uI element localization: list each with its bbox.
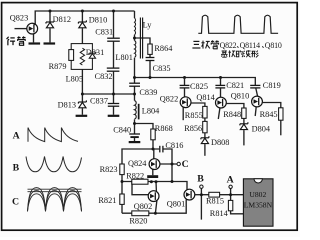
- wire Q814 bottom stub: [218, 108, 220, 119]
- zener D831: [89, 52, 96, 59]
- svg-text:C: C: [182, 159, 189, 170]
- wire C825 upper lead: [184, 78, 186, 86]
- capacitor C835: [146, 58, 155, 61]
- node dot Q802 emitter/bottom rail: [154, 212, 157, 215]
- svg-text:R821: R821: [98, 196, 116, 205]
- resistor R822 horizontal: [132, 179, 148, 184]
- svg-text:R823: R823: [100, 165, 118, 174]
- label 的 (hanzi de): [236, 50, 243, 56]
- node dot D810/top bus: [81, 10, 84, 13]
- wire Q822 emitter to R855: [191, 103, 205, 106]
- svg-text:L804: L804: [142, 106, 160, 115]
- resistor R821: [120, 194, 124, 204]
- wire bottom rail y213.2: [122, 200, 186, 214]
- svg-text:C821: C821: [226, 81, 244, 90]
- capacitor bar under Q824: [147, 175, 158, 178]
- svg-text:LM358N: LM358N: [244, 200, 273, 209]
- svg-text:C825: C825: [190, 82, 208, 91]
- wire L801 bottom to bus: [134, 58, 136, 78]
- wire Q802 collector: [155, 182, 157, 192]
- resistor R864: [148, 44, 152, 54]
- svg-text:C816: C816: [165, 141, 183, 150]
- label 极 (hanzi ji): [201, 41, 209, 49]
- wire Q801 right to R815 rail: [195, 194, 209, 196]
- wire junction to R864: [135, 38, 151, 44]
- wire Q824 emitter to C terminal: [160, 163, 177, 165]
- transistor Q822: [180, 97, 191, 108]
- node dot emitter/C816 column: [171, 163, 174, 166]
- 行管 label (hanzi guan): [17, 36, 25, 45]
- zener D812: [46, 20, 54, 28]
- zener D810: [78, 20, 86, 28]
- node dot C839/node row: [133, 93, 136, 96]
- svg-text:C837: C837: [90, 96, 108, 105]
- svg-text:R856: R856: [184, 124, 202, 133]
- wire Q802 base: [132, 182, 149, 195]
- resistor R879: [69, 50, 74, 61]
- zener D808: [201, 136, 209, 144]
- capacitor C831: [107, 38, 120, 41]
- node dot C840 junction: [133, 122, 136, 125]
- capacitor C837: [108, 104, 119, 107]
- svg-text:Q8114: Q8114: [240, 41, 261, 50]
- node dot B/R815 rail: [200, 193, 203, 196]
- wire C839 upper lead: [134, 78, 136, 84]
- resistor R823: [120, 164, 124, 175]
- resistor R814: [228, 200, 232, 210]
- zener D813: [78, 100, 86, 108]
- waveform B parabolas: [26, 157, 82, 172]
- svg-text:Q810: Q810: [231, 91, 249, 100]
- transistor Q810: [252, 96, 263, 107]
- wire C837 lower lead: [113, 106, 115, 114]
- svg-text:Q810: Q810: [265, 41, 282, 50]
- wire Ly bottom to junction: [134, 35, 136, 41]
- wire R868 to rail: [152, 140, 154, 149]
- wire Q822 bottom stub: [182, 108, 184, 121]
- svg-text:R855: R855: [185, 111, 203, 120]
- wire Q802 emitter: [155, 200, 157, 213]
- wire L805 loop bottom to D813: [81, 69, 83, 102]
- svg-text:R845: R845: [260, 110, 278, 119]
- svg-text:D812: D812: [53, 15, 71, 24]
- wire C840 to ground: [134, 137, 136, 141]
- resistor R856: [203, 121, 207, 132]
- capacitor C816: [160, 146, 163, 153]
- ground C837: [108, 115, 120, 117]
- svg-text:R864: R864: [154, 44, 173, 53]
- op-amp U802 IC body: [243, 179, 273, 226]
- transistor Q801: [184, 189, 195, 200]
- node dot L801/bus: [133, 76, 136, 79]
- svg-text:C835: C835: [153, 64, 171, 73]
- wire R856 to D808: [204, 133, 206, 138]
- wire D810 branch: [81, 11, 83, 22]
- transformer core bars: [139, 18, 141, 59]
- wire C839 to L804: [134, 86, 136, 100]
- U802 notch: [254, 179, 262, 183]
- wire D804 lower lead: [243, 130, 245, 145]
- node B terminal circle: [200, 185, 203, 188]
- node dot Ly/L801 junction: [133, 37, 136, 40]
- svg-text:D813: D813: [58, 101, 76, 110]
- wire D810 to damper loop: [81, 29, 83, 44]
- node dot loop/D813 row: [81, 93, 84, 96]
- label 三 (hanzi san): [192, 41, 200, 48]
- resistor R855: [203, 106, 207, 118]
- svg-text:B: B: [197, 174, 204, 185]
- wire C821 upper lead: [220, 78, 222, 86]
- node dot C832/C837 row: [112, 93, 115, 96]
- node dot C821/bus: [219, 76, 222, 79]
- wire R823 to R822 rail: [121, 175, 123, 194]
- node C terminal circle: [177, 162, 180, 165]
- capacitor C840 electrolytic: [129, 134, 140, 137]
- svg-text:C819: C819: [263, 81, 281, 90]
- wire B node down: [200, 188, 202, 219]
- node dot C825/bus: [183, 76, 186, 79]
- wire C825 to Q822: [184, 88, 186, 97]
- svg-text:R848: R848: [223, 110, 241, 119]
- wire D812 branch: [49, 11, 51, 22]
- svg-text:R820: R820: [129, 217, 147, 226]
- wire C840 junction to R868: [135, 124, 154, 130]
- wire R821 to bottom rail: [121, 204, 123, 213]
- inductor L801 coil: [135, 41, 136, 58]
- wire C831 to C832: [113, 42, 115, 68]
- node A terminal circle: [229, 185, 232, 188]
- wire L804 to C840 junction: [134, 119, 136, 133]
- svg-text:A: A: [227, 174, 234, 185]
- wire C821 to Q814: [220, 88, 222, 97]
- svg-text:Q822: Q822: [160, 94, 178, 103]
- svg-text:Q824: Q824: [128, 159, 147, 168]
- wire Q824 bottom to bar: [152, 169, 154, 175]
- svg-text:C839: C839: [139, 88, 157, 97]
- svg-text:R879: R879: [49, 62, 67, 71]
- svg-text:Q822: Q822: [220, 41, 237, 50]
- capacitor C832: [107, 68, 120, 71]
- svg-text:Q814: Q814: [196, 93, 215, 102]
- svg-text:Q801: Q801: [167, 199, 185, 208]
- transistor Q824: [149, 159, 160, 170]
- svg-text:D810: D810: [89, 16, 107, 25]
- wire C816 right to C node column: [163, 149, 172, 182]
- ground D813: [76, 115, 88, 117]
- comma separators: [237, 46, 264, 47]
- label 管 (hanzi guan2): [211, 40, 219, 49]
- wire rail y149 from R823 to C816: [122, 149, 159, 164]
- wire Q810 emitter to R845: [262, 103, 280, 108]
- node dot R868/rail: [152, 148, 155, 151]
- svg-text:C832: C832: [95, 72, 113, 81]
- svg-text:C: C: [12, 197, 19, 208]
- svg-text:D831: D831: [86, 48, 104, 57]
- svg-text:L805: L805: [66, 75, 84, 84]
- waveform C overlapping arcs: [28, 188, 82, 212]
- wire mid bus y77.5: [135, 78, 256, 86]
- wire R822 rail y181.5: [122, 182, 187, 190]
- wire Q823 emitter: [33, 34, 35, 43]
- node dot C835/bus: [149, 76, 152, 79]
- capacitor C821: [215, 85, 225, 88]
- transistor Q823: [27, 23, 38, 34]
- wire top bus corner into Ly: [134, 11, 136, 18]
- wire Q810 bottom stub: [255, 107, 256, 116]
- svg-text:L801: L801: [115, 53, 133, 62]
- wire C832 to node: [113, 72, 115, 94]
- wire C819 to Q810: [256, 88, 258, 96]
- node dot A/R815 rail: [229, 193, 232, 196]
- svg-text:C840: C840: [113, 125, 131, 134]
- wire C831 branch: [113, 11, 115, 38]
- wire Q823 base: [15, 28, 28, 30]
- transistor Q814: [216, 97, 227, 108]
- 行管 label (hanzi xing): [7, 37, 16, 46]
- wire C835 to bus: [149, 61, 151, 78]
- wire top bus: [35, 11, 134, 25]
- label 形 (hanzi xing2): [251, 51, 258, 58]
- ground Q823: [29, 42, 41, 44]
- inductor L805 zigzag: [80, 48, 84, 65]
- node dot R822 right: [150, 180, 153, 183]
- wire A node down to R814: [230, 188, 232, 200]
- node dot D812/top bus: [49, 10, 52, 13]
- svg-text:Ly: Ly: [143, 20, 153, 29]
- svg-text:C831: C831: [95, 28, 113, 37]
- wire D813 to ground: [81, 109, 83, 115]
- svg-text:B: B: [13, 163, 20, 174]
- wire Q823 collector stub inside: [32, 23, 35, 25]
- resistor R868: [151, 129, 155, 140]
- svg-text:R814: R814: [210, 209, 229, 218]
- ground C840: [129, 141, 141, 143]
- damper network loop rectangle: [71, 44, 92, 70]
- inductor Ly coil: [135, 18, 136, 35]
- wire Q814 emitter to R848: [226, 104, 244, 109]
- waveform A sawtooth: [28, 128, 78, 142]
- L804 core bar: [138, 104, 140, 120]
- resistor R845: [279, 108, 283, 120]
- wire R855 to R856: [204, 118, 206, 121]
- svg-text:R868: R868: [155, 124, 173, 133]
- capacitor C819: [250, 85, 260, 88]
- label 基 (hanzi ji2): [221, 50, 228, 57]
- capacitor C839: [129, 83, 140, 86]
- label 波 (hanzi bo): [244, 50, 251, 57]
- node dot Q802 collector/rail: [155, 180, 158, 183]
- svg-text:Q823: Q823: [10, 14, 28, 23]
- wire R845 lower lead: [280, 120, 282, 135]
- wire R864 to C835: [149, 54, 151, 57]
- wire R815 rail to U802: [219, 194, 243, 196]
- waveform pulses (base of Q822/Q8114/Q810): [198, 15, 278, 33]
- svg-text:R815: R815: [206, 196, 224, 205]
- svg-text:Q802: Q802: [134, 202, 152, 211]
- resistor R815 horizontal: [209, 192, 220, 197]
- label 极 (hanzi ji3): [228, 50, 235, 57]
- wire D808 lower lead: [204, 144, 206, 155]
- svg-text:D808: D808: [211, 138, 229, 147]
- resistor R848: [242, 108, 246, 118]
- wire Q824 collector: [153, 149, 155, 159]
- svg-text:D804: D804: [252, 124, 271, 133]
- inductor L804 coil: [135, 101, 137, 119]
- node dot C816 column / R822 rail: [171, 180, 174, 183]
- wire R814 to U802: [231, 211, 244, 214]
- wire node row y94: [82, 93, 134, 95]
- node dot C831/top bus: [112, 10, 115, 13]
- svg-text:U802: U802: [249, 190, 266, 199]
- transistor Q802: [148, 191, 159, 202]
- wire C837 upper lead: [113, 94, 115, 103]
- ground D812: [44, 42, 56, 44]
- svg-text:R822: R822: [126, 172, 144, 181]
- zener D804: [240, 122, 248, 130]
- svg-text:A: A: [13, 131, 20, 142]
- resistor R820 horizontal: [132, 211, 149, 216]
- node dot R823 column / R822 rail: [121, 180, 124, 183]
- wire R848 to D804: [243, 118, 245, 123]
- capacitor C825: [180, 85, 190, 88]
- wire D812 lower lead: [49, 29, 51, 43]
